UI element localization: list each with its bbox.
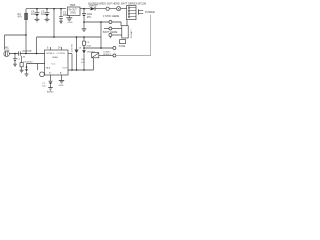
wire batt feed [84, 21, 109, 23]
svg-text:FUSE: FUSE [119, 45, 126, 48]
pin stub top 14 [61, 47, 63, 50]
resistor R2 drop [21, 56, 23, 63]
svg-text:100n: 100n [86, 45, 92, 47]
power connector box [127, 6, 137, 20]
svg-text:7805: 7805 [70, 3, 76, 7]
pin stub top 6 [50, 47, 52, 50]
svg-text:100n: 100n [63, 13, 69, 17]
svg-text:BATT HERE: BATT HERE [103, 30, 118, 34]
ground under C3 [59, 20, 63, 22]
trimmer RV1 [92, 53, 99, 58]
capacitor C6 drop at x84 [83, 9, 85, 14]
ground under C5 [45, 18, 50, 20]
wire terminal to jack [109, 8, 116, 10]
wire top supply bus [26, 8, 66, 10]
svg-text:10u: 10u [31, 12, 36, 16]
svg-text:47k: 47k [18, 15, 23, 19]
svg-text:SPKR 8: SPKR 8 [103, 54, 112, 56]
diode D3 on x84 [82, 49, 85, 51]
svg-text:WORLD: WORLD [46, 53, 55, 55]
svg-text:GND: GND [68, 22, 73, 24]
wire batt+ to clip [112, 22, 121, 26]
wire top bus right of regulator [80, 8, 90, 10]
wire IC out drop [71, 54, 73, 71]
svg-text:GND: GND [59, 85, 64, 87]
wire mic signal [9, 53, 44, 55]
svg-text:17VDC HERE: 17VDC HERE [103, 14, 120, 18]
terminal circle batt mid [109, 27, 112, 30]
capacitor C1 series [17, 51, 19, 55]
capacitor C8 box on x84 [83, 37, 85, 41]
fuse box [120, 40, 126, 44]
wire IC left pin2 [27, 63, 45, 65]
svg-text:VOL: VOL [81, 62, 86, 64]
diode D1 [91, 7, 95, 11]
terminal circle out B [113, 54, 116, 57]
wire trimmer to out terminal [99, 55, 113, 57]
regulator IC2 box [68, 7, 81, 16]
pin stub right out [68, 53, 72, 55]
IC1 box [45, 50, 68, 75]
diode D2 [76, 37, 78, 50]
wire drop x26.5 cap [26, 64, 28, 70]
ground stub regulator [68, 16, 70, 18]
capacitor C5 drop [46, 9, 48, 13]
svg-text:25V: 25V [87, 16, 92, 19]
capacitor C2 drop mic [14, 54, 16, 59]
labels [5, 1, 155, 93]
terminal circle out A [113, 47, 116, 50]
jack symbol with cross [117, 7, 121, 11]
battery clip box [122, 26, 128, 38]
return wire faint [116, 15, 151, 56]
capacitor C3 drop [60, 9, 62, 17]
svg-text:POWER: POWER [145, 10, 155, 14]
vertical x101 link [100, 22, 102, 48]
svg-text:TA-B: TA-B [45, 66, 50, 69]
wire jack to connector [121, 8, 127, 10]
ground under C4 [35, 18, 40, 20]
svg-text:OUT: OUT [62, 67, 67, 69]
svg-text:COLTRL: COLTRL [57, 53, 66, 55]
wire mic feed vertical [4, 35, 6, 50]
wire bus diode to terminal [96, 8, 107, 10]
pin stub bottom 8 [61, 75, 63, 80]
ground bus mid [37, 36, 102, 38]
wire left vertical from bus to mic node [25, 9, 27, 54]
transistor circle [40, 72, 45, 77]
svg-text:OUT/OP: OUT/OP [22, 50, 32, 53]
terminal circle batt- [109, 34, 112, 37]
svg-text:9V BATT: 9V BATT [130, 29, 133, 38]
terminal circle batt+ [109, 21, 112, 24]
svg-text:10u: 10u [41, 12, 46, 16]
ground at IC pin8 [59, 79, 64, 81]
svg-text:AGND: AGND [47, 90, 54, 93]
svg-text:GND: GND [70, 12, 76, 15]
resistor R1 [25, 13, 28, 19]
capacitor C4 drop [36, 9, 38, 13]
svg-text:D2 OUT: D2 OUT [70, 45, 72, 53]
pin stub bottom 5 [50, 75, 52, 81]
wire drop x37.5 [37, 64, 39, 71]
svg-text:ECM: ECM [5, 50, 10, 52]
electret mic MIC1 [4, 51, 10, 57]
capacitor C7 at IC pin5 [49, 80, 53, 82]
wire bus-37 left drop to input node [36, 37, 38, 54]
wire drop x54 to ground bus [53, 9, 55, 37]
svg-text:UM66: UM66 [52, 57, 59, 59]
svg-text:1N4007: 1N4007 [89, 3, 99, 7]
plug prongs [138, 9, 140, 14]
svg-text:1N4148: 1N4148 [87, 51, 95, 53]
wire mic feed horizontal [5, 34, 27, 36]
wire out level [84, 47, 113, 49]
junction dots [14, 8, 102, 71]
ground under C6 [83, 22, 85, 29]
power jack circle terminal [106, 7, 109, 10]
wire connector down to clip [126, 20, 128, 26]
bottom bus [68, 69, 94, 71]
svg-text:100n/63V: 100n/63V [23, 62, 33, 64]
